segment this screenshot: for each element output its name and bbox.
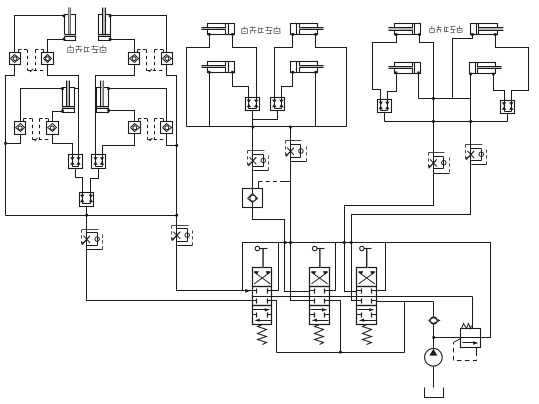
wire: DV3 lower-right to pump line: [377, 301, 434, 303]
wire: throttle V6 to valve3 lower-left port: [352, 165, 471, 301]
wire: rail drop to valve2 lower-left port: [291, 127, 310, 301]
wire: cyl1 rod port to A1: [15, 16, 65, 53]
wire: floor cyl2 inner drop to merge line: [453, 35, 473, 99]
one-way throttle V6: [466, 144, 487, 166]
junction dots: floor cylinder ports: [395, 33, 497, 75]
cylinder: roof-plate lift cyl 1 (row1 left): [64, 8, 76, 41]
wire: pump line drop to tank rail: [404, 302, 406, 353]
wire: wing cyl2 inner port to divider E2: [275, 35, 293, 98]
label char 3 of floor label: [445, 27, 449, 33]
cylinder: wing-plate cyl 3 (row2 left): [201, 62, 234, 73]
wire: A3 to left trunk junction: [6, 135, 21, 144]
label char 4 of roof label: [92, 46, 99, 53]
wire: A2 down through-line to divider D1: [48, 65, 79, 155]
wire: pilot gallery across valves: [253, 296, 473, 298]
wire: F1 output to rail: [384, 113, 386, 122]
pilot check valve A2: [42, 53, 54, 65]
flow divider D2: [92, 155, 106, 169]
label char 5 of wing label: [274, 26, 281, 33]
pilot check valve A3: [15, 122, 26, 135]
spring of relief valve: [462, 324, 472, 329]
junction dots: net junctions: [4, 97, 472, 353]
one-way throttle V4: [286, 141, 307, 163]
cylinder: floor-plate cyl 1 (row1 left): [388, 24, 420, 35]
wire: cyl3 rod-side stub to through-line: [75, 88, 79, 90]
directional valve DV1: [253, 268, 272, 325]
wire: wing cyl4 inner port to divider E2: [282, 73, 293, 98]
wire: wing cyl2 outer port to rail: [316, 35, 347, 127]
directional valve DV3: [357, 268, 377, 325]
flow divider E2: [271, 98, 285, 111]
pilot check valve A4: [47, 122, 59, 135]
wire: pump suction: [433, 367, 435, 388]
wire: tee to relief valve inlet: [434, 337, 461, 339]
label char 2 of wing label: [250, 27, 257, 34]
wire: G output to valve2 upper-left port: [253, 203, 310, 292]
pilot check valve B3: [129, 122, 141, 134]
wire: D0 output down to throttle V1: [86, 207, 88, 230]
wire: floor group merge line: [419, 98, 471, 100]
one-way throttle V1: [82, 229, 103, 251]
label char 1 of roof label: [68, 45, 74, 52]
wire: D1 output to combiner D0: [76, 169, 83, 193]
cylinder: roof-plate lift cyl 4 (row2 right): [97, 81, 109, 113]
wire: wing cyl3 outer port to rail: [209, 73, 211, 127]
cylinder: floor-plate cyl 2 (row1 right): [471, 24, 504, 35]
wire: D2 output to combiner D0: [91, 169, 99, 193]
wire: floor cyl4 inner through-line to throttle V6: [470, 75, 472, 145]
cylinder: floor-plate cyl 3 (row2 left): [388, 63, 420, 74]
wire: wing cyl1 inner port to divider E1: [233, 35, 257, 98]
wire: floor cyl4 outer to divider F2 left: [494, 75, 505, 101]
check valve CK (pump outlet): [429, 317, 440, 324]
wire: A1 down to left trunk: [6, 65, 15, 216]
one-way throttle V2: [172, 225, 193, 247]
flow divider E1: [246, 98, 260, 111]
pilot line of G (dashed): [259, 182, 291, 189]
one-way throttle V3: [248, 151, 269, 172]
arrowhead: feed into valve1: [245, 289, 250, 293]
wire: cyl4 top port to B4: [109, 89, 167, 122]
wire: B4 to right trunk junction: [167, 134, 177, 146]
junction dots: roof cylinder ports: [61, 15, 111, 113]
label char 4 of floor label: [451, 27, 456, 33]
wire: DV1 upper-right riser to bank loop: [272, 243, 279, 291]
wire: into valve1 upper-left: [243, 290, 253, 292]
wire: B3 to divider D2 right input: [103, 134, 135, 155]
flow divider F1: [378, 100, 392, 113]
pilot lines B1-B2 (dashed): [138, 50, 165, 73]
tank T: [425, 388, 444, 398]
wire: floor cyl1 inner through-line to throttle V5: [420, 35, 434, 153]
wire: cyl4 base port to B3: [109, 111, 135, 122]
pilot lines B3-B4 (dashed): [139, 119, 165, 142]
flow divider D1: [69, 155, 83, 169]
pump P1: [425, 349, 443, 367]
wire: cyl2 rod port to B2: [111, 16, 167, 53]
pilot check valve B4: [161, 122, 173, 134]
one-way throttle V5: [429, 153, 450, 174]
wire: cyl1 base port to A2: [48, 40, 65, 53]
flow divider D0 (combiner): [80, 193, 94, 207]
cylinder: wing-plate cyl 4 (row2 right): [291, 62, 324, 73]
wire: throttle V5 to valve3 upper-left port: [345, 174, 434, 292]
cylinder: roof-plate lift cyl 3 (row2 left): [63, 81, 75, 113]
wire: cyl3 base port to A4: [53, 112, 63, 122]
pilot check valve A1: [10, 53, 21, 65]
label char 2 of floor label: [437, 26, 442, 33]
wire: A4 to divider D1 left input: [53, 135, 73, 155]
directional valve DV2: [310, 268, 330, 325]
cylinder: wing-plate cyl 2 (row1 right): [291, 24, 324, 35]
wire: E2 output merge: [253, 111, 278, 120]
pilot check valve B1: [129, 53, 140, 65]
wire: B2 down to right trunk: [167, 65, 177, 226]
junction dots: wing cylinder ports: [208, 33, 317, 74]
wire: pilot gallery to relief valve top: [472, 297, 474, 329]
wire: DV1 lower-right to tank rail: [272, 301, 277, 353]
label char 2 of roof label: [76, 46, 83, 53]
spring of DV3: [363, 325, 372, 345]
pilot lines A1-A2 (dashed): [19, 50, 46, 73]
label char 1 of floor label: [430, 26, 435, 33]
pilot check valve G: [243, 189, 263, 208]
spring of DV1: [258, 325, 267, 345]
wire: wing group rail: [187, 126, 347, 128]
wire: floor cyl2 outer to divider F2 right: [496, 35, 529, 101]
wire: B1 down through-line to divider D2: [96, 65, 135, 155]
cylinder: wing-plate cyl 1 (row1 left): [201, 24, 234, 35]
wire: wing cyl3 inner port to divider E1: [233, 73, 249, 98]
lever of DV1: [255, 246, 267, 267]
flow divider F2: [501, 101, 515, 114]
wire: wing cyl1 outer port to rail: [187, 35, 210, 127]
wire: DV2 upper-right riser to bank loop: [330, 243, 336, 291]
spring of DV2: [315, 325, 324, 345]
wire: pump pressure riser: [433, 302, 435, 317]
relief valve RV: [461, 329, 481, 348]
label char 3 of wing label: [259, 28, 264, 34]
pilot check valve B2: [162, 53, 173, 65]
label char 5 of floor label: [457, 26, 463, 33]
wire: cyl3 top port to A3: [21, 89, 63, 122]
wire: tank rail under valves: [277, 352, 405, 354]
wire: E1 output down to pilot check G: [252, 111, 254, 194]
pilot line of relief valve (dashed): [454, 339, 477, 361]
wire: cyl4 rod-side stub: [96, 88, 97, 90]
label char 1 of wing label: [242, 26, 248, 33]
wire: floor cyl3 inner to merge line: [418, 74, 420, 99]
wire: left group trunk line: [6, 215, 177, 217]
wire: cyl2 base port to B1: [111, 40, 135, 53]
cylinder: roof-plate lift cyl 2 (row1 right): [99, 8, 111, 41]
wire: floor group rail: [385, 121, 508, 123]
lever of DV2: [313, 246, 325, 267]
lever of DV3: [360, 246, 372, 267]
wire: throttle V2 to bank corner: [177, 246, 243, 291]
label char 4 of wing label: [266, 27, 273, 34]
wire: F2 output to rail: [507, 114, 509, 122]
wire: wing cyl4 outer port to rail: [315, 73, 317, 127]
cylinder: floor-plate cyl 4 (row2 right): [470, 63, 502, 74]
wire: throttle V1 to valve1 lower-left port: [87, 250, 253, 301]
wire: DV3 upper-right riser to bank loop: [377, 243, 386, 291]
wire: DV2 lower-right to tank rail: [330, 301, 341, 353]
wire: floor cyl1 outer to divider F1 left: [373, 35, 397, 100]
label char 5 of roof label: [100, 45, 107, 52]
label char 3 of roof label: [85, 47, 90, 53]
wire: check valve to pump: [433, 325, 435, 349]
wire: floor cyl3 outer to divider F1 right: [388, 74, 397, 100]
pilot lines A3-A4 (dashed): [24, 119, 51, 142]
wire: bank enclosure P/T loop to relief valve: [243, 243, 491, 338]
